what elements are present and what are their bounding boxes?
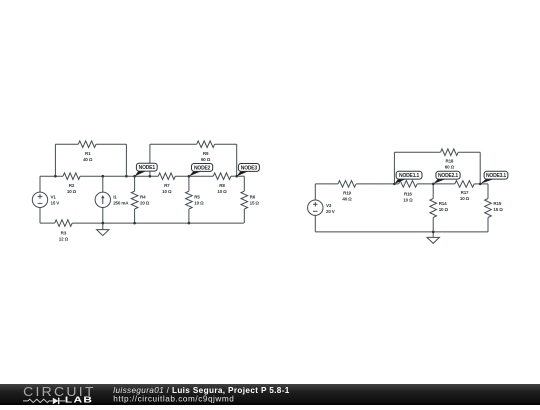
svg-text:10 Ω: 10 Ω [439,207,449,212]
junction R1 right leg [125,175,128,178]
wire [40,175,63,177]
junction I1 branch [102,175,105,178]
wire [188,209,190,223]
resistor R14 [430,199,437,218]
wire [393,152,395,184]
svg-text:20 Ω: 20 Ω [140,201,150,206]
wire [315,183,338,185]
svg-text:http://circuitlab.com/c9qjwmd: http://circuitlab.com/c9qjwmd [113,394,234,403]
wire [55,143,78,145]
junction I1 bottom [102,222,105,225]
svg-text:40 Ω: 40 Ω [342,197,352,202]
svg-text:R3: R3 [61,231,67,236]
wire [394,151,440,153]
svg-text:LAB: LAB [65,396,94,405]
resistor R9 [197,141,215,148]
wire [487,184,489,199]
svg-text:15 Ω: 15 Ω [250,201,260,206]
wire [231,175,244,177]
svg-text:10 Ω: 10 Ω [162,189,172,194]
wire [39,207,41,223]
svg-text:10 Ω: 10 Ω [67,189,77,194]
svg-text:10 Ω: 10 Ω [460,196,470,201]
junction R5 bottom [188,222,191,225]
wire [314,215,316,232]
voltage source V1 [32,192,47,207]
svg-text:10 Ω: 10 Ω [194,201,204,206]
svg-text:15 V: 15 V [51,200,60,205]
current source I1 [95,192,110,207]
voltage source V3 [308,200,323,215]
svg-text:R14: R14 [439,201,447,206]
logo LAB text [65,396,94,405]
svg-text:60 Ω: 60 Ω [201,157,211,162]
logo CIRCUIT text [23,384,96,399]
resistor R2 [63,173,80,180]
svg-text:R8: R8 [219,183,225,188]
svg-text:250 mA: 250 mA [113,200,129,205]
junction R1 left leg [54,175,57,178]
junction R9 left leg [149,175,152,178]
wire [39,176,41,192]
resistor R16 [399,181,418,188]
junction R9 right leg [235,175,238,178]
wire [175,175,213,177]
wire [487,218,489,232]
logo diode symbol [53,398,65,405]
node NODE2 [189,171,202,176]
resistor R6 [241,191,248,209]
resistor R7 [158,173,175,180]
svg-text:10 Ω: 10 Ω [217,189,227,194]
wire [356,183,399,185]
svg-text:R16: R16 [404,191,412,196]
svg-text:60 Ω: 60 Ω [445,164,455,169]
svg-text:R5: R5 [194,195,200,200]
wire [243,176,245,191]
resistor R3 [55,220,72,227]
svg-text:V1: V1 [51,194,57,199]
svg-text:R19: R19 [343,191,351,196]
wire [149,144,151,176]
wire [40,222,55,224]
resistor R17 [455,181,474,188]
wire [314,184,316,200]
wire [215,143,237,145]
wire [432,218,434,232]
svg-text:12 Ω: 12 Ω [59,237,69,242]
svg-text:R1: R1 [85,151,91,156]
footer title text [113,386,290,395]
svg-text:I1: I1 [113,194,117,199]
wire [474,183,488,185]
wire [458,151,480,153]
wire [54,144,56,176]
junction bottom R14 [432,231,435,234]
resistor R19 [338,181,356,188]
svg-text:R17: R17 [461,190,469,195]
svg-text:R9: R9 [203,151,209,156]
wire [243,209,245,223]
ground [432,232,434,238]
resistor R4 [131,191,138,209]
footer url text [113,394,234,403]
svg-text:NODE2: NODE2 [194,166,211,172]
wire [96,143,126,145]
svg-text:NODE1: NODE1 [139,165,156,171]
wire [236,144,238,176]
wire [80,175,158,177]
svg-text:R4: R4 [140,195,146,200]
resistor R8 [213,173,231,180]
wire [125,144,127,176]
node NODE3.1 [480,179,494,184]
wire [102,207,104,223]
ground [102,223,104,230]
wire [134,209,136,223]
node NODE2.1 [433,179,446,184]
wire [150,143,197,145]
svg-text:40 Ω: 40 Ω [83,157,93,162]
svg-text:20 V: 20 V [326,209,335,214]
node NODE1 [135,171,147,177]
resistor R1 [78,141,96,148]
svg-text:NODE1.1: NODE1.1 [399,173,419,179]
svg-text:R15: R15 [493,201,501,206]
svg-text:R6: R6 [250,195,256,200]
svg-text:V3: V3 [326,203,332,208]
node NODE3 [237,171,249,176]
resistor R15 [485,199,492,218]
wire [479,152,481,184]
wire [188,176,190,191]
svg-text:R2: R2 [69,183,75,188]
wire [315,231,488,233]
junction R4 bottom [133,222,136,225]
wire [72,222,244,224]
svg-text:NODE2.1: NODE2.1 [438,173,458,179]
wire [102,176,104,192]
resistor R18 [441,149,459,156]
logo resistor symbol [23,399,53,402]
wire [417,183,455,185]
svg-text:10 Ω: 10 Ω [403,197,413,202]
svg-text:R18: R18 [445,158,453,163]
wire [134,176,136,191]
resistor R5 [186,191,193,209]
svg-text:R7: R7 [164,183,170,188]
svg-text:NODE3: NODE3 [241,166,258,172]
svg-text:NODE3.1: NODE3.1 [486,173,506,179]
wire [432,184,434,199]
svg-text:15 Ω: 15 Ω [493,207,503,212]
node NODE1.1 [394,179,406,184]
